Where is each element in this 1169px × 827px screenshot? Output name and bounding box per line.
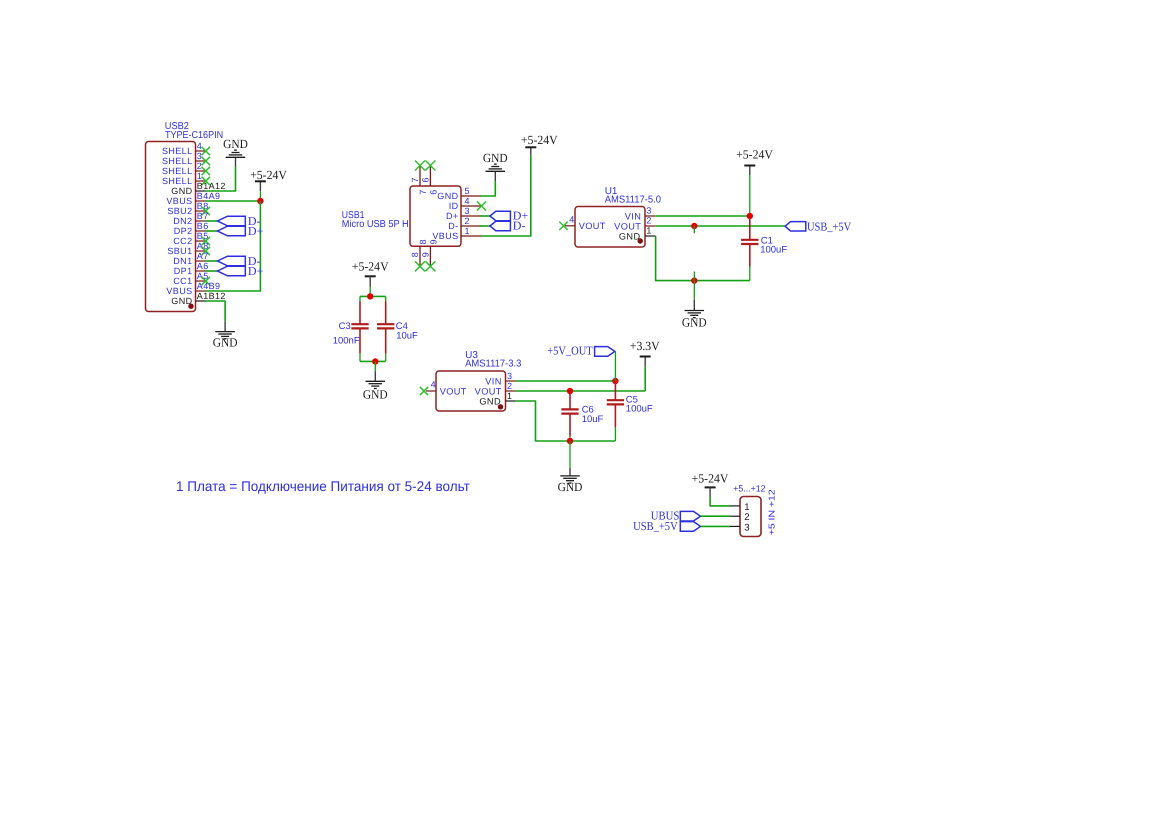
junction U3 GND rail	[567, 438, 573, 444]
svg-text:VOUT: VOUT	[614, 221, 641, 231]
svg-text:VBUS: VBUS	[432, 231, 458, 241]
svg-text:10uF: 10uF	[396, 330, 418, 341]
svg-text:3: 3	[646, 205, 651, 215]
net flag D+ (upper)	[217, 226, 245, 236]
wire bottom rail C3/C4	[360, 360, 386, 362]
svg-text:VBUS: VBUS	[166, 196, 192, 206]
ground GND (above USB1)	[494, 171, 496, 181]
svg-text:DN2: DN2	[173, 216, 192, 226]
junction U3 VOUT / C6	[567, 388, 573, 394]
net flag D- (lower)	[217, 256, 245, 266]
svg-text:B6: B6	[197, 221, 209, 231]
wire USB1 VBUS to +5-24V	[481, 155, 531, 236]
svg-text:100uF: 100uF	[626, 403, 653, 414]
svg-text:+5-24V: +5-24V	[521, 133, 558, 147]
svg-text:VIN: VIN	[485, 376, 502, 386]
wire +5-24V to pin 1	[710, 497, 730, 506]
svg-text:GND: GND	[682, 316, 707, 330]
no-connect on USB1 ID pin	[477, 201, 486, 210]
svg-text:1 Плата = Подключение Питания: 1 Плата = Подключение Питания от 5-24 во…	[176, 478, 470, 494]
svg-text:VBUS: VBUS	[166, 286, 192, 296]
capacitor C4	[385, 296, 387, 301]
svg-text:1: 1	[507, 391, 512, 401]
junction on VBUS rail	[257, 198, 263, 204]
svg-text:GND: GND	[479, 396, 501, 406]
junction bottom C3/C4	[372, 358, 378, 364]
svg-text:D+: D+	[248, 224, 264, 238]
connector USB1 body	[410, 186, 461, 246]
svg-text:SBU2: SBU2	[167, 206, 192, 216]
ground GND (below U1)	[693, 281, 695, 300]
capacitor C1	[749, 218, 751, 240]
svg-text:1: 1	[646, 226, 651, 236]
svg-text:4: 4	[197, 141, 202, 151]
svg-text:B4A9: B4A9	[197, 191, 221, 201]
svg-text:SHELL: SHELL	[162, 176, 193, 186]
svg-text:100uF: 100uF	[760, 245, 787, 256]
junction on VOUT wire	[691, 223, 697, 229]
wire top rail C3/C4	[360, 295, 386, 297]
U1 corner dot	[638, 238, 643, 243]
capacitor C3	[359, 296, 361, 301]
junction U1 GND rail	[691, 277, 697, 283]
wire U1 VIN to +5-24V	[655, 215, 750, 217]
net flag USB_+5V (U1)	[785, 222, 806, 231]
svg-text:+3.3V: +3.3V	[630, 339, 660, 353]
svg-text:4: 4	[465, 196, 470, 206]
svg-text:C3: C3	[339, 321, 351, 332]
svg-text:GND: GND	[619, 232, 641, 242]
wire USB2 GND A1B12 to ground	[206, 301, 226, 321]
svg-text:B7: B7	[197, 211, 209, 221]
power +3.3V	[644, 366, 646, 391]
svg-text:B1A12: B1A12	[197, 181, 226, 191]
svg-text:GND: GND	[437, 191, 458, 201]
svg-text:8: 8	[418, 239, 428, 244]
svg-text:SBU1: SBU1	[167, 246, 192, 256]
svg-text:+5 IN +12: +5 IN +12	[766, 489, 776, 535]
power +5-24V (USB1)	[530, 147, 532, 155]
svg-text:A1B12: A1B12	[197, 291, 226, 301]
svg-text:SHELL: SHELL	[162, 146, 193, 156]
svg-text:CC2: CC2	[173, 236, 192, 246]
svg-text:2: 2	[197, 161, 202, 171]
wire USB2 VBUS B4A9 to +5-24V rail	[206, 200, 261, 202]
wire USB1 GND to ground	[480, 181, 495, 196]
svg-text:VOUT: VOUT	[440, 386, 467, 396]
wire USB2 DP2 to D+ flag	[206, 230, 218, 232]
svg-text:GND: GND	[223, 137, 248, 151]
net flag D+ (USB1)	[490, 211, 510, 220]
svg-text:+5-24V: +5-24V	[692, 471, 729, 485]
svg-text:DP2: DP2	[174, 226, 193, 236]
svg-text:+5-24V: +5-24V	[250, 168, 287, 182]
wire U1 VOUT to USB_+5V flag	[655, 225, 785, 227]
connector J body	[740, 497, 761, 537]
svg-text:5: 5	[465, 186, 470, 196]
svg-text:1: 1	[197, 171, 202, 181]
wire USB1 D- to flag	[480, 225, 490, 227]
svg-text:A4B9: A4B9	[197, 281, 221, 291]
svg-text:USB_+5V: USB_+5V	[633, 519, 678, 533]
svg-text:2: 2	[646, 215, 651, 225]
USB2 corner dot	[188, 304, 193, 309]
svg-text:GND: GND	[213, 336, 238, 350]
svg-text:7: 7	[418, 190, 428, 195]
ground GND (below U3)	[569, 441, 571, 468]
svg-text:A7: A7	[197, 251, 209, 261]
wire USB1 D+ to flag	[480, 215, 490, 217]
svg-text:AMS1117-5.0: AMS1117-5.0	[605, 195, 662, 206]
wire +5-24V rail down to A4B9	[206, 201, 261, 291]
power +5-24V (connector)	[705, 486, 716, 488]
svg-text:D-: D-	[513, 219, 526, 233]
wire USB2 DN1 to D- flag	[206, 260, 218, 262]
svg-text:3: 3	[465, 206, 470, 216]
svg-text:AMS1117-3.3: AMS1117-3.3	[465, 359, 522, 370]
wire stub below VOUT junction	[693, 226, 695, 233]
svg-text:TYPE-C16PIN: TYPE-C16PIN	[165, 130, 223, 141]
USB1 shield pin 8 (bottom)	[419, 246, 421, 265]
wire U3 GND to rail	[516, 401, 616, 441]
svg-text:10uF: 10uF	[582, 414, 604, 425]
svg-text:2: 2	[465, 216, 470, 226]
svg-text:+5-24V: +5-24V	[736, 148, 773, 162]
svg-text:GND: GND	[483, 151, 508, 165]
svg-text:ID: ID	[449, 201, 459, 211]
svg-text:D+: D+	[446, 211, 459, 221]
regulator U3 body	[436, 371, 506, 411]
svg-text:4: 4	[431, 380, 436, 390]
ground GND (below USB2)	[224, 321, 226, 331]
svg-text:VIN: VIN	[625, 211, 642, 221]
USB1 shield pin 6 (top)	[429, 167, 431, 187]
svg-text:3: 3	[197, 151, 202, 161]
svg-text:VOUT: VOUT	[475, 386, 502, 396]
connector USB2 body	[146, 142, 196, 312]
wire USB_+5V to pin 3	[701, 525, 731, 527]
svg-text:DP1: DP1	[174, 266, 193, 276]
USB1 shield pin 9 (bottom)	[429, 246, 431, 265]
svg-text:+5V_OUT: +5V_OUT	[547, 343, 593, 357]
svg-text:1: 1	[465, 226, 470, 236]
ground GND (below C3/C4)	[374, 362, 376, 372]
wire +5V_OUT down to VIN	[614, 351, 616, 381]
power +5-24V (U1)	[749, 175, 751, 216]
svg-text:DN1: DN1	[173, 256, 192, 266]
svg-text:100nF: 100nF	[333, 335, 360, 346]
svg-text:3: 3	[744, 522, 749, 533]
wire USB2 DP1 to D+ flag	[206, 270, 218, 272]
wire UBUS to pin 2	[701, 515, 731, 517]
svg-text:GND: GND	[171, 186, 192, 196]
wire U3 VIN	[516, 380, 616, 382]
svg-text:VOUT: VOUT	[579, 221, 606, 231]
svg-text:GND: GND	[363, 387, 388, 401]
wire U1 GND to rail	[656, 236, 750, 281]
svg-text:GND: GND	[558, 480, 583, 494]
ground GND (top of USB2)	[235, 157, 237, 166]
svg-text:4: 4	[569, 214, 574, 224]
USB1 shield pin 7 (top)	[419, 167, 421, 187]
svg-text:3: 3	[507, 371, 512, 381]
junction top C3/C4	[367, 293, 373, 299]
svg-text:SHELL: SHELL	[162, 166, 193, 176]
svg-text:CC1: CC1	[173, 276, 192, 286]
power +5-24V (USB2)	[259, 191, 261, 201]
wire U3 VOUT to +3.3V	[516, 390, 646, 392]
net flag D- (upper)	[217, 216, 245, 226]
svg-text:D-: D-	[448, 221, 458, 231]
svg-text:USB_+5V: USB_+5V	[807, 219, 851, 233]
capacitor C5	[614, 383, 616, 401]
U3 corner dot	[498, 404, 503, 409]
svg-text:9: 9	[420, 252, 430, 257]
svg-text:SHELL: SHELL	[162, 156, 193, 166]
svg-text:2: 2	[507, 381, 512, 391]
net flag D+ (lower)	[217, 266, 245, 276]
junction U1 VIN / C1	[747, 213, 753, 219]
wire USB2 DN2 to D- flag	[206, 220, 218, 222]
regulator U1 body	[575, 207, 645, 248]
svg-text:+5...+12: +5...+12	[733, 483, 765, 493]
junction U3 VIN / C5	[612, 378, 618, 384]
net flag D- (USB1)	[490, 221, 510, 230]
wire stub above GND rail junction	[693, 272, 695, 281]
svg-text:D+: D+	[248, 264, 264, 278]
svg-text:A6: A6	[197, 261, 209, 271]
svg-text:8: 8	[410, 252, 420, 257]
svg-text:Micro USB 5P H: Micro USB 5P H	[342, 219, 409, 230]
svg-text:7: 7	[410, 177, 420, 182]
svg-text:6: 6	[420, 177, 430, 182]
power +5-24V (C3/C4)	[365, 275, 376, 277]
capacitor C6	[569, 394, 571, 409]
wire USB2 GND B1A12 to ground	[206, 167, 236, 192]
svg-text:+5-24V: +5-24V	[352, 259, 389, 273]
